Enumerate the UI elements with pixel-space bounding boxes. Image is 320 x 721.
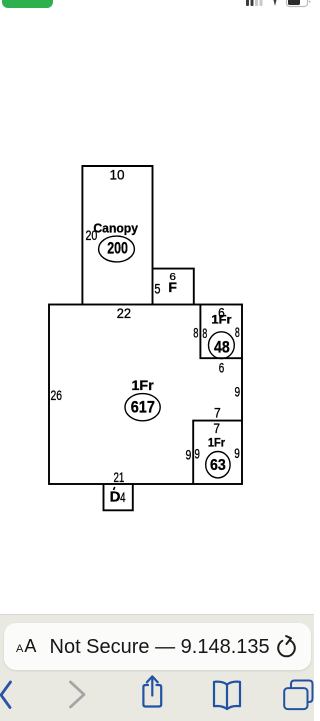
main building outline <box>49 305 242 485</box>
svg-text:9: 9 <box>235 384 241 400</box>
svg-text:26: 26 <box>51 387 63 403</box>
svg-text:F: F <box>168 279 177 295</box>
bottom browser chrome <box>0 614 314 721</box>
svg-text:1Fr: 1Fr <box>208 438 226 450</box>
svg-text:48: 48 <box>214 338 230 357</box>
svg-text:4: 4 <box>120 489 126 505</box>
deck D outline <box>104 484 133 510</box>
svg-text:7: 7 <box>213 420 220 436</box>
address pill <box>4 623 311 670</box>
svg-text:8: 8 <box>235 324 240 340</box>
svg-text:8: 8 <box>193 325 198 341</box>
battery <box>287 0 311 7</box>
share icon <box>143 676 161 706</box>
reader AA button <box>16 637 37 655</box>
svg-text:10: 10 <box>109 167 124 183</box>
forward chevron <box>71 682 85 707</box>
bookmarks icon <box>214 682 240 709</box>
svg-text:5: 5 <box>154 280 160 296</box>
svg-text:9: 9 <box>195 446 201 462</box>
svg-text:200: 200 <box>107 239 128 257</box>
unit 63 interior walls <box>193 421 242 484</box>
svg-text:617: 617 <box>131 398 155 416</box>
canopy area ellipse <box>99 236 135 262</box>
status bar right icons <box>242 0 314 9</box>
toolbar icons <box>0 671 314 721</box>
svg-text:63: 63 <box>210 457 226 474</box>
status bar green pill <box>2 0 53 8</box>
svg-text:1Fr: 1Fr <box>211 314 232 326</box>
svg-text:6: 6 <box>219 360 225 376</box>
svg-text:8: 8 <box>202 325 207 341</box>
svg-text:1Fr: 1Fr <box>132 377 155 393</box>
svg-text:21: 21 <box>113 469 124 485</box>
back chevron <box>1 682 11 708</box>
deck tick <box>114 487 115 490</box>
svg-text:9: 9 <box>186 446 192 462</box>
unit63 area ellipse <box>206 452 230 478</box>
unit 48 interior walls <box>200 305 242 359</box>
porch F outline <box>153 269 194 305</box>
svg-text:D: D <box>110 489 121 506</box>
svg-text:Canopy: Canopy <box>93 220 138 235</box>
tabs icon <box>284 681 312 710</box>
reload icon <box>276 633 302 659</box>
signal bars <box>246 0 263 6</box>
main area ellipse <box>125 394 160 421</box>
unit48 area ellipse <box>209 332 235 359</box>
location arrow <box>273 0 277 6</box>
svg-text:22: 22 <box>117 305 131 321</box>
svg-text:7: 7 <box>214 404 221 420</box>
canopy outline <box>82 166 152 305</box>
url text <box>50 636 270 659</box>
svg-text:9: 9 <box>234 445 240 461</box>
